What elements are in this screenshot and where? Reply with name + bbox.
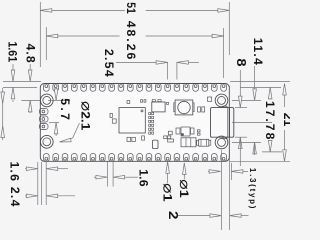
passive component P11	[202, 107, 205, 112]
svg-text:2.54: 2.54	[102, 49, 116, 77]
dim 51 line	[146, 9, 230, 11]
SWD pad 3	[39, 124, 48, 130]
pin pad R2	[211, 154, 217, 162]
inductor L1	[181, 138, 196, 147]
pin pad R4	[193, 154, 199, 162]
extension line board bottom (for 51 dim)	[39, 2, 41, 67]
pin pad L10	[137, 84, 143, 92]
tabbed capacitor C8	[199, 139, 209, 146]
flash chip U2	[152, 102, 165, 112]
dim 8 line (USB width)	[239, 70, 241, 96]
svg-text:11.4: 11.4	[251, 38, 265, 65]
ext line pad axis down	[3, 86, 37, 88]
decoupling cap C2	[152, 116, 154, 118]
USB connector	[211, 108, 234, 138]
passive component P1	[127, 101, 130, 104]
mounting hole	[40, 94, 53, 107]
passive component P4	[110, 113, 112, 117]
pin pad R16	[81, 154, 87, 162]
pin pad R1	[221, 154, 227, 162]
extension line first pin (for 48.26 dim)	[223, 28, 225, 78]
extension line board top (for 51 dim)	[228, 2, 230, 55]
svg-text:2.4: 2.4	[8, 187, 22, 207]
dim 2.4 (SWD pad)	[58, 195, 75, 197]
ext line board left edge down	[3, 81, 41, 83]
passive component P12	[198, 107, 201, 112]
dim 1.6 pin pad width	[125, 176, 138, 178]
ext line USB tip right	[230, 163, 232, 180]
passive component P14	[181, 127, 190, 136]
pin pad L1	[221, 84, 227, 92]
svg-text:17.78: 17.78	[263, 101, 277, 140]
pin pad R13	[109, 154, 115, 162]
pin pad R8	[155, 154, 161, 162]
decoupling cap C6	[152, 132, 154, 134]
pin pad L8	[155, 84, 161, 92]
SWD pad 1	[39, 109, 48, 115]
passive component P2	[144, 100, 146, 103]
pin pad L12	[118, 84, 124, 92]
mounting hole	[215, 136, 228, 149]
svg-text:4.8: 4.8	[24, 43, 38, 62]
dim 4.8	[29, 64, 31, 70]
pin pad L4	[193, 84, 199, 92]
dim 1.3 typ	[243, 170, 248, 172]
pin pad R9	[146, 154, 152, 162]
pin pad L9	[146, 84, 152, 92]
pin pad R6	[174, 154, 180, 162]
pin pad L5	[183, 84, 189, 92]
label dia 1 B	[183, 167, 185, 180]
pin pad R5	[183, 154, 189, 162]
svg-text:8: 8	[234, 58, 248, 66]
pin pad L11	[128, 84, 134, 92]
ext line pad axis up (17.78)	[240, 86, 281, 88]
ext line hole axis 2 up	[232, 141, 261, 143]
passive component P10	[164, 136, 167, 139]
pin pad R14	[100, 154, 106, 162]
dim 48.26 line	[146, 35, 224, 37]
pin pad R20	[44, 154, 50, 162]
ext line hole axis right	[220, 150, 222, 230]
pin pad L16	[81, 84, 87, 92]
pin pad R10	[137, 154, 143, 162]
passive component P16	[191, 128, 195, 134]
pin pad L20	[44, 84, 50, 92]
corner dot of regulator	[182, 134, 184, 136]
pin pad L6	[174, 84, 180, 92]
ext line board right edge up	[229, 160, 290, 162]
dim 1.61	[12, 64, 14, 70]
pin pad R12	[118, 154, 124, 162]
decoupling cap C1	[152, 113, 154, 115]
ext lines SWD pad	[45, 162, 47, 205]
dim 2.54 pitch (left pins)	[188, 61, 200, 63]
pin pad L2	[211, 84, 217, 92]
SWD pad 2	[39, 116, 48, 122]
clipped bottom dim row	[2, 88, 4, 140]
passive component P3	[141, 100, 143, 103]
svg-text:48.26: 48.26	[124, 21, 138, 60]
passive component P8	[142, 136, 145, 140]
svg-text:⌀1: ⌀1	[176, 179, 192, 198]
passive component P17	[197, 130, 200, 132]
passive component P6	[132, 137, 136, 141]
extension line last pin (for 48.26 dim)	[45, 27, 47, 60]
pin pad L17	[72, 84, 78, 92]
pin pad R11	[128, 154, 134, 162]
passive component P15	[176, 128, 180, 134]
passive component P5	[112, 119, 116, 123]
svg-text:1.6: 1.6	[137, 169, 151, 187]
passive component P18	[197, 133, 200, 135]
passive component P19	[168, 131, 172, 135]
passive component P13	[208, 97, 212, 101]
pin pad L14	[100, 84, 106, 92]
RP2040 chip U1	[119, 108, 145, 133]
dim 5.7	[48, 99, 70, 101]
svg-text:⌀1: ⌀1	[159, 183, 175, 202]
ext line right pad axis (17.78)	[262, 151, 282, 153]
pin pad L13	[109, 84, 115, 92]
ext line hole axis up (11.4)	[232, 99, 261, 101]
pin pad R3	[202, 154, 208, 162]
svg-text:1.61: 1.61	[5, 41, 19, 62]
decoupling cap C3	[152, 120, 154, 122]
mounting hole	[215, 94, 228, 107]
dim 2 (edge to hole axis)	[241, 215, 249, 217]
BOOTSEL button	[175, 100, 193, 115]
pin pad R15	[90, 154, 96, 162]
passive component P20	[168, 139, 174, 142]
svg-text:1.3(typ): 1.3(typ)	[248, 168, 257, 209]
dim 21 line	[284, 84, 286, 108]
passive component P9	[167, 136, 170, 139]
pin pad R18	[62, 154, 68, 162]
svg-text:2: 2	[166, 211, 180, 220]
centerline up	[232, 121, 272, 123]
svg-text:⌀2.1: ⌀2.1	[78, 101, 95, 131]
leader dia 2.1	[65, 123, 80, 141]
ext lines USB edges	[235, 107, 247, 109]
dim 11.4 line	[254, 66, 256, 91]
pin pad L7	[165, 84, 171, 92]
decoupling cap C5	[152, 128, 154, 130]
pin pad R7	[165, 154, 171, 162]
ext line board top edge right	[229, 150, 231, 230]
svg-text:1.6: 1.6	[8, 161, 22, 181]
pin pad L19	[53, 84, 59, 92]
ext line board left edge up	[230, 81, 290, 83]
pin pad L3	[202, 84, 208, 92]
PCB board outline	[40, 84, 229, 162]
svg-text:21: 21	[281, 113, 290, 127]
decoupling cap C4	[152, 124, 154, 126]
pin pad L18	[62, 84, 68, 92]
crystal Y1	[152, 140, 158, 149]
passive component P7	[127, 137, 131, 141]
dim 17.78 line	[269, 87, 271, 99]
svg-text:51: 51	[124, 2, 138, 14]
mounting hole	[40, 135, 53, 148]
label dia 1 A	[167, 166, 169, 183]
svg-text:5.7: 5.7	[58, 98, 72, 120]
dim 1.6 (SWD pad)	[58, 168, 68, 170]
pin pad R19	[53, 154, 59, 162]
pin pad R17	[72, 154, 78, 162]
pin pad L15	[90, 84, 96, 92]
ext line hole axis down	[21, 99, 40, 101]
